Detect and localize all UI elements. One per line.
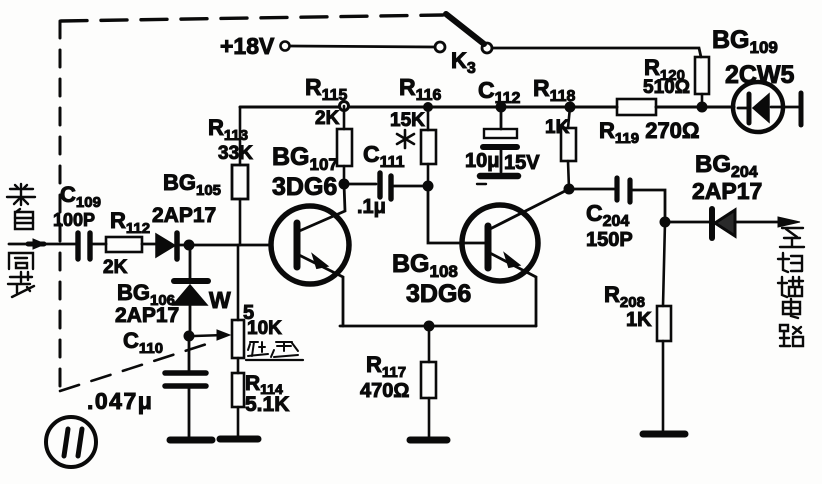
capacitor C111 bbox=[344, 173, 429, 199]
resistor R112 bbox=[106, 237, 142, 252]
emitter bus wire bbox=[340, 325, 536, 328]
diode BG106 bbox=[173, 245, 208, 336]
svg-text:510Ω: 510Ω bbox=[643, 77, 690, 98]
svg-text:R119 270Ω: R119 270Ω bbox=[599, 118, 700, 147]
svg-text:R115: R115 bbox=[305, 74, 348, 104]
svg-text:BG105: BG105 bbox=[163, 170, 221, 199]
node C204/R208 junction bbox=[660, 217, 671, 228]
svg-text:C204: C204 bbox=[586, 200, 629, 230]
W115 function label 延迟 bbox=[246, 342, 303, 360]
node label: sync input text 来自同步 bbox=[7, 184, 35, 297]
svg-text:R117: R117 bbox=[366, 352, 406, 381]
svg-text:33K: 33K bbox=[218, 143, 253, 164]
svg-text:10μ: 10μ bbox=[465, 150, 499, 172]
svg-text:1K: 1K bbox=[626, 309, 652, 331]
resistor R115 bbox=[337, 102, 352, 185]
svg-text:.047μ: .047μ bbox=[87, 388, 153, 414]
svg-text:.1μ: .1μ bbox=[357, 196, 386, 218]
resistor R118 bbox=[561, 102, 576, 190]
wire K3 to R120 bbox=[492, 48, 701, 57]
potentiometer W115 bbox=[232, 245, 244, 373]
W115 wiper arrow bbox=[194, 330, 230, 340]
svg-text:15K: 15K bbox=[390, 110, 425, 131]
svg-text:3DG6: 3DG6 bbox=[272, 173, 337, 201]
svg-text:150P: 150P bbox=[586, 229, 633, 251]
wire node A to BG107 base bbox=[180, 244, 271, 247]
output text 至扫描电路 bbox=[778, 228, 804, 346]
svg-text:C111: C111 bbox=[363, 141, 405, 171]
resistor R119 bbox=[617, 99, 656, 115]
svg-text:2K: 2K bbox=[103, 257, 128, 278]
input wire with arrow bbox=[9, 239, 77, 249]
resistor R117 bbox=[421, 326, 436, 437]
svg-text:R112: R112 bbox=[110, 208, 150, 237]
capacitor C109 bbox=[78, 233, 90, 259]
dashed box border top bbox=[61, 15, 443, 21]
capacitor C110 bbox=[165, 336, 206, 437]
svg-text:R118: R118 bbox=[533, 75, 576, 105]
svg-text:5.1K: 5.1K bbox=[245, 393, 289, 416]
svg-text:2CW5: 2CW5 bbox=[725, 61, 795, 89]
diode BG105 bbox=[156, 233, 177, 259]
resistor R113 bbox=[232, 107, 248, 245]
dashed box border left bbox=[59, 21, 62, 392]
svg-text:R113: R113 bbox=[208, 115, 248, 144]
svg-text:2AP17: 2AP17 bbox=[152, 204, 216, 227]
ground for R208 bbox=[643, 431, 685, 438]
transistor BG107 bbox=[271, 184, 349, 326]
svg-text:C110: C110 bbox=[123, 328, 163, 357]
node R115 bottom bbox=[339, 179, 350, 190]
ground for R117 bbox=[410, 437, 447, 444]
svg-text:BG204: BG204 bbox=[695, 151, 758, 181]
resistor R114 bbox=[232, 373, 244, 436]
node R116 bottom bbox=[423, 181, 434, 192]
svg-text:R116: R116 bbox=[399, 74, 442, 104]
wire bbox=[142, 243, 157, 246]
resistor R120 bbox=[695, 57, 709, 107]
wire bbox=[89, 243, 106, 246]
supply rail bbox=[240, 106, 617, 109]
zener diode BG109 bbox=[733, 82, 801, 132]
node R118 bottom bbox=[564, 184, 575, 195]
ground for R114 bbox=[220, 436, 258, 443]
svg-text:BG108: BG108 bbox=[392, 250, 458, 281]
dashed diagonal to W115 wiper bbox=[60, 343, 210, 391]
svg-text:W: W bbox=[209, 287, 231, 313]
svg-text:2AP17: 2AP17 bbox=[692, 178, 762, 204]
svg-text:2AP17: 2AP17 bbox=[115, 304, 179, 327]
capacitor C112 electrolytic bbox=[477, 102, 518, 185]
node C110 junction bbox=[184, 331, 195, 342]
resistor R208 bbox=[657, 222, 671, 430]
svg-text:R208: R208 bbox=[604, 282, 645, 311]
svg-text:C112: C112 bbox=[478, 77, 521, 107]
capacitor C204 bbox=[569, 178, 665, 222]
transistor BG108 bbox=[428, 186, 569, 326]
asterisk footnote mark bbox=[397, 130, 414, 148]
wire +18V to K3 bbox=[290, 46, 435, 47]
svg-text:2K: 2K bbox=[315, 108, 340, 129]
svg-text:+18V: +18V bbox=[220, 33, 275, 59]
ground for C110 bbox=[170, 437, 212, 444]
svg-text:BG107: BG107 bbox=[272, 143, 338, 174]
node R120 bottom bbox=[697, 102, 708, 113]
svg-text:1K: 1K bbox=[545, 117, 570, 138]
svg-text:100P: 100P bbox=[53, 210, 95, 230]
svg-text:3DG6: 3DG6 bbox=[406, 280, 471, 308]
svg-text:K3: K3 bbox=[451, 48, 476, 77]
svg-text:10K: 10K bbox=[247, 318, 282, 339]
figure number 11 in circle bbox=[46, 417, 96, 467]
svg-text:BG109: BG109 bbox=[712, 26, 778, 57]
svg-text:C109: C109 bbox=[60, 182, 101, 211]
switch K3 bbox=[435, 14, 492, 53]
resistor R116 bbox=[421, 102, 436, 186]
svg-text:15V: 15V bbox=[504, 152, 540, 174]
node emitter junction bbox=[424, 321, 435, 332]
node A junction bbox=[184, 240, 195, 251]
diode BG204 bbox=[665, 209, 800, 238]
svg-text:470Ω: 470Ω bbox=[360, 380, 409, 402]
